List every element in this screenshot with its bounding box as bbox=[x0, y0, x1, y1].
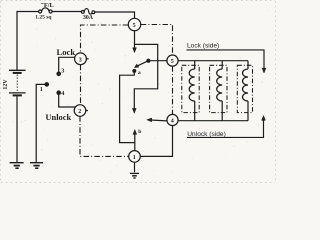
scan border frame bbox=[1, 1, 276, 183]
solenoid coil 1 bbox=[189, 61, 194, 121]
dash-dot link 5 to 5 (right) bbox=[141, 25, 173, 56]
fuse 30A bbox=[81, 9, 94, 14]
solenoid coil 2 bbox=[217, 61, 222, 121]
unlock side direction arrow bbox=[187, 116, 265, 138]
svg-text:3: 3 bbox=[61, 68, 64, 75]
lock side direction arrow bbox=[187, 50, 266, 73]
connector terminal 5 (right) bbox=[167, 55, 178, 66]
ground (switch common) bbox=[30, 163, 43, 169]
label F/L bbox=[41, 2, 54, 9]
svg-text:a: a bbox=[138, 70, 141, 76]
switch contact 1 (common) bbox=[36, 83, 48, 162]
dash-dot link 5 to 4 (right) bbox=[172, 66, 174, 114]
switch contact 3 (lock) bbox=[57, 57, 75, 75]
wire arm a pivot to terminal 5 (right) bbox=[148, 60, 167, 62]
label a bbox=[138, 70, 141, 76]
wire terminal 4 to terminal 1 bbox=[140, 126, 172, 157]
label 12V (rotated) bbox=[3, 79, 9, 90]
svg-text:3: 3 bbox=[79, 57, 82, 63]
label Unlock (side) bbox=[187, 131, 225, 138]
lock side bus bbox=[178, 60, 248, 62]
wire fuse F/L to fuse 30A bbox=[52, 11, 81, 13]
solenoid coil 3 bbox=[243, 61, 248, 121]
svg-text:5: 5 bbox=[171, 59, 174, 65]
svg-text:2: 2 bbox=[78, 109, 81, 115]
svg-text:12V: 12V bbox=[3, 79, 9, 90]
label 4 (contact) bbox=[61, 90, 64, 97]
door lock motor 1 (dash-dot housing) bbox=[182, 65, 199, 112]
wire battery- down bbox=[16, 96, 18, 162]
svg-text:⁻F/L: ⁻F/L bbox=[41, 2, 54, 9]
switch contact 4 (unlock) bbox=[57, 91, 75, 107]
svg-text:1: 1 bbox=[133, 155, 136, 161]
connector terminal 2 bbox=[74, 105, 88, 117]
svg-text:4: 4 bbox=[61, 90, 64, 97]
switch arm a (pivot to arrowhead) bbox=[134, 59, 150, 67]
svg-text:Lock (side): Lock (side) bbox=[187, 42, 219, 49]
label Lock bbox=[57, 47, 76, 57]
dash-dot link 3 to 2 bbox=[80, 65, 82, 105]
ground (battery) bbox=[10, 163, 24, 169]
label 1 (contact) bbox=[40, 86, 43, 93]
label 30A bbox=[83, 15, 94, 21]
svg-text:Unlock: Unlock bbox=[46, 113, 72, 122]
fixed contact a (dot) to ground rail bbox=[120, 70, 136, 151]
connector terminal 1 (bottom) bbox=[129, 151, 141, 163]
wire branch to contact b feed bbox=[134, 44, 157, 110]
wire fuse 30A to connector 5 bbox=[95, 12, 135, 18]
fusible link F/L bbox=[39, 8, 53, 13]
label b bbox=[138, 129, 141, 135]
fixed contact b (arrow up) bbox=[133, 130, 137, 143]
connector terminal 4 (right) bbox=[167, 114, 178, 125]
svg-text:Lock: Lock bbox=[57, 47, 76, 57]
battery BAT 12V bbox=[9, 70, 26, 95]
svg-text:4: 4 bbox=[171, 119, 174, 125]
connector terminal 3 bbox=[75, 53, 89, 65]
svg-text:b: b bbox=[138, 129, 141, 135]
label Unlock bbox=[46, 113, 72, 122]
door lock motor 2 (dash-dot housing) bbox=[210, 65, 227, 112]
svg-text:30A: 30A bbox=[83, 15, 94, 21]
label 3 (contact) bbox=[61, 68, 64, 75]
unlock side bus bbox=[178, 120, 248, 122]
arrow down contact b feed bbox=[132, 108, 136, 113]
dash-dot link left: 5 to 3 bbox=[81, 25, 129, 53]
connector terminal 5 (top) bbox=[128, 18, 140, 30]
door lock motor 3 (dash-dot housing) bbox=[237, 65, 252, 112]
svg-text:5: 5 bbox=[133, 23, 136, 29]
label 1.25 sq bbox=[35, 14, 52, 20]
ground (terminal 1) bbox=[130, 173, 139, 178]
svg-text:1.25 sq: 1.25 sq bbox=[35, 14, 52, 20]
wire terminal 1 to ground bbox=[134, 162, 136, 172]
wire battery+ to fuse F/L bbox=[17, 12, 39, 71]
dash-dot link 2 to 1 bbox=[80, 116, 129, 156]
relay fixed contact from 5 (arrow down) bbox=[133, 31, 137, 53]
svg-text:1: 1 bbox=[40, 86, 43, 93]
label Lock (side) bbox=[187, 42, 219, 49]
switch arm b from terminal 4 (arrow left) bbox=[147, 118, 167, 122]
